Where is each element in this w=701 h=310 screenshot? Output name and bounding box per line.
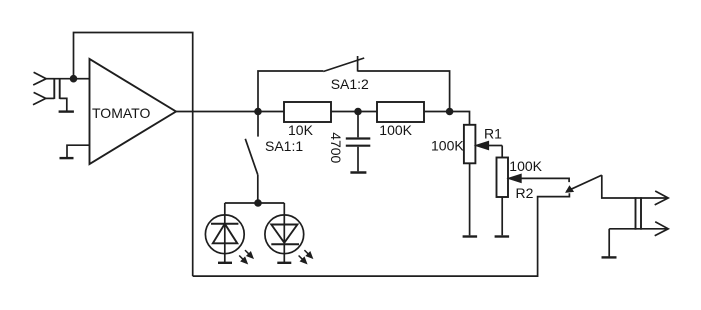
node 3 bbox=[446, 108, 454, 116]
svg-text:SA1:2: SA1:2 bbox=[331, 76, 369, 92]
node 4 (LED junction) bbox=[254, 199, 262, 207]
wire: 100K to R1 bbox=[424, 112, 470, 125]
wire: R1 bottom bbox=[469, 163, 471, 235]
svg-text:R1: R1 bbox=[484, 125, 502, 141]
wire: bottom rail bbox=[193, 193, 570, 276]
wire: feedback top loop bbox=[74, 33, 193, 277]
output jack XS2 bbox=[609, 191, 668, 236]
resistor 10K bbox=[284, 102, 331, 138]
wire: LED bus bbox=[225, 202, 284, 204]
svg-text:TOMATO: TOMATO bbox=[92, 105, 150, 121]
wire: R1 wiper to R2 bbox=[501, 146, 503, 158]
ground (amp) bbox=[60, 145, 90, 158]
svg-text:100K: 100K bbox=[431, 138, 464, 154]
wire: bypass top left bbox=[258, 71, 323, 112]
ground (capacitor) bbox=[350, 171, 366, 173]
node A (amp input) bbox=[70, 75, 78, 83]
ground (output jack) bbox=[602, 229, 617, 258]
wire: 10K to 100K bbox=[331, 111, 377, 113]
ground (HL2) bbox=[277, 262, 291, 264]
wire: bypass top right bbox=[358, 71, 450, 112]
node 1 bbox=[254, 108, 262, 116]
wire: R2 bottom bbox=[501, 197, 503, 235]
potentiometer R1 bbox=[431, 125, 502, 164]
switch SA1:2 bbox=[323, 56, 369, 92]
wire: R2 wiper to switch bbox=[521, 178, 570, 182]
wire: lever to jack bbox=[602, 175, 668, 198]
capacitor 4700 bbox=[328, 112, 371, 172]
svg-text:4700: 4700 bbox=[328, 132, 344, 163]
wire: amp output bbox=[176, 111, 284, 113]
ground (R2) bbox=[495, 235, 510, 237]
svg-text:100K: 100K bbox=[379, 122, 412, 138]
svg-text:10K: 10K bbox=[288, 122, 314, 138]
node 2 bbox=[354, 108, 362, 116]
svg-text:100K: 100K bbox=[509, 158, 542, 174]
switch (output jack contact) bbox=[566, 175, 602, 192]
svg-text:SA1:1: SA1:1 bbox=[265, 138, 303, 154]
resistor 100K bbox=[377, 102, 424, 138]
ground (HL1) bbox=[218, 262, 232, 264]
svg-text:R2: R2 bbox=[516, 185, 534, 201]
input jack XS1 bbox=[33, 72, 74, 105]
op-amp U1 TOMATO bbox=[90, 59, 177, 164]
ground (input jack sleeve) bbox=[59, 98, 74, 111]
potentiometer R2 bbox=[497, 158, 543, 201]
LED HL1 bbox=[205, 203, 253, 264]
wire: input to amp bbox=[74, 78, 90, 80]
switch SA1:1 bbox=[245, 112, 303, 204]
LED HL2 bbox=[265, 203, 313, 264]
ground (R1) bbox=[463, 235, 478, 237]
